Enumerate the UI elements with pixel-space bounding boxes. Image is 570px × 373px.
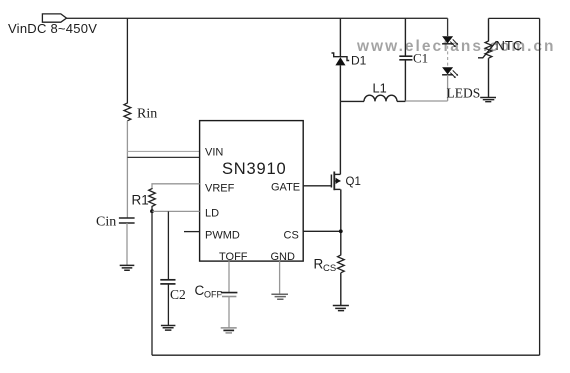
wire right loop up [539,18,541,355]
wire L1 left [340,100,364,102]
wire GATE [303,185,331,187]
svg-text:LD: LD [205,208,219,220]
svg-text:L1: L1 [373,81,387,96]
LED 1 [442,36,458,47]
svg-text:LEDS: LEDS [447,86,481,101]
wire VIN stub gray [127,150,199,152]
node junction CS/source [339,229,343,233]
capacitor C2 [160,280,175,326]
watermark [356,38,556,55]
wire VREF (gray) [152,184,200,188]
svg-text:GATE: GATE [271,182,300,194]
svg-text:C: C [195,283,205,298]
resistor R1 [149,188,156,211]
svg-text:GND: GND [271,251,296,263]
svg-text:NTC: NTC [496,38,523,53]
svg-text:Q1: Q1 [346,176,361,188]
IC U1 SN3910 body [200,121,304,262]
wire NTC branch [488,18,490,40]
svg-text:R1: R1 [132,193,149,208]
LED 2 [442,67,458,78]
input port connector VinDC [42,14,66,22]
wire bottom rail [152,354,540,356]
ground below COFF (gray) [221,328,237,333]
wire LED branch top [447,18,449,36]
wire VIN [127,156,199,158]
svg-text:C1: C1 [413,51,428,66]
ground below RCS [333,306,349,311]
inductor L1 [364,95,397,101]
wire CS [303,230,341,232]
svg-text:CS: CS [284,230,299,242]
svg-text:VREF: VREF [205,183,235,195]
ground below NTC [480,98,496,102]
wire Rin branch top [126,18,128,102]
diode D1 (Schottky) [332,53,350,101]
svg-text:C2: C2 [170,287,186,302]
transistor Q1 MOSFET [331,172,340,191]
label RCS [314,257,337,275]
svg-text:Cin: Cin [96,215,116,230]
wire dashed LED string [447,46,449,66]
svg-text:D1: D1 [351,54,367,68]
capacitor COFF [221,293,238,328]
wire NTC bottom [488,58,490,97]
svg-text:CS: CS [323,263,336,274]
wire C1 to LEDs (gray) [405,100,447,102]
wire L1 right to C1 [397,100,405,102]
svg-text:TOFF: TOFF [219,251,248,263]
resistor Rin [124,102,131,121]
wire source rail [340,189,342,254]
wire C2 branch [167,211,169,279]
capacitor C1 [399,56,412,101]
svg-text:VinDC 8~450V: VinDC 8~450V [8,21,97,36]
ground below Cin [120,265,135,270]
capacitor Cin [119,218,135,265]
wire LED bottom (gray) [447,75,449,101]
svg-text:SN3910: SN3910 [222,160,286,178]
svg-text:VIN: VIN [205,147,223,159]
wire top rail [67,17,448,19]
wire LD (gray) [152,210,200,212]
wire PWMD stub [184,231,200,233]
svg-text:PWMD: PWMD [205,230,240,242]
svg-text:Rin: Rin [137,107,157,122]
wire GND stub (gray) [279,261,281,294]
thermistor NTC [478,41,497,59]
label COFF [195,283,223,300]
wire C1 branch top [404,18,406,56]
wire TOFF stub (gray) [228,261,230,292]
wire drain rail [339,101,341,174]
svg-text:R: R [314,257,324,272]
resistor RCS [338,255,345,306]
wire input column (gray) [126,121,128,218]
node junction R1/LD [150,209,154,213]
wire left loop down [151,211,153,355]
ground below C2 [161,326,176,331]
svg-text:OFF: OFF [204,290,222,300]
wire NTC top [489,17,540,19]
ground below GND pin (gray) [271,294,288,299]
svg-text:www.elecfans.com.cn: www.elecfans.com.cn [356,38,556,55]
wire D1 branch [339,18,341,56]
